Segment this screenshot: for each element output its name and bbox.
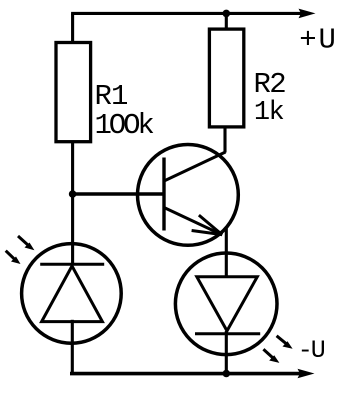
svg-text:1OOk: 1OOk bbox=[95, 109, 154, 142]
wire photodiode bottom bbox=[71, 320, 74, 374]
wire emitter to LED bbox=[225, 229, 228, 279]
wire R2 bottom to collector node bbox=[223, 127, 226, 153]
wire R1 top stub bbox=[71, 13, 74, 42]
transistor Q1 body circle bbox=[138, 145, 239, 246]
wire -U rail bbox=[70, 372, 300, 376]
wire base node to transistor bbox=[73, 192, 163, 196]
photodiode D1 triangle bbox=[42, 266, 103, 322]
photodiode D1 body circle bbox=[22, 244, 122, 344]
wire LED bottom to -U rail bbox=[225, 331, 228, 374]
junction dot at -U rail / LED bbox=[223, 370, 231, 378]
light arrow into photodiode (lower) bbox=[6, 251, 21, 264]
light arrow into photodiode (upper) bbox=[18, 236, 34, 250]
light arrow from LED (upper) bbox=[277, 336, 293, 349]
junction dot at +U rail / R2 bbox=[223, 10, 231, 18]
LED D2 triangle bbox=[197, 277, 257, 331]
transistor Q1 emitter line bbox=[164, 208, 222, 235]
photodiode D1 cathode bar bbox=[40, 263, 104, 266]
resistor R1 bbox=[56, 43, 91, 142]
svg-text:-U: -U bbox=[298, 336, 325, 365]
svg-text:+U: +U bbox=[299, 24, 337, 57]
svg-text:R2: R2 bbox=[254, 68, 286, 101]
resistor R2 bbox=[209, 29, 243, 127]
svg-text:1k: 1k bbox=[254, 98, 284, 128]
wire R1 bottom to photodiode bbox=[71, 141, 74, 264]
junction dot at base node bbox=[69, 190, 77, 198]
power arrow +U head bbox=[299, 9, 316, 19]
light arrow from LED (lower) bbox=[263, 349, 279, 363]
LED D2 body circle bbox=[175, 253, 277, 355]
wire R2 top stub bbox=[225, 13, 228, 30]
power arrow -U head bbox=[298, 369, 315, 379]
wire +U rail bbox=[71, 12, 301, 15]
transistor Q1 base bar bbox=[162, 158, 165, 231]
transistor Q1 collector line bbox=[164, 152, 226, 181]
LED D2 cathode bar bbox=[195, 332, 260, 335]
transistor Q1 emitter arrowhead bbox=[192, 215, 222, 235]
